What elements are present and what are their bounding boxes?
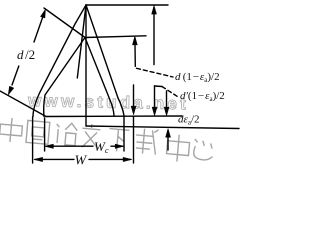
wm char xin bbox=[193, 139, 214, 161]
outer-right edge bbox=[86, 5, 124, 116]
wm char guo bbox=[26, 120, 50, 144]
inner-right edge bbox=[85, 38, 114, 116]
svg-text:Wc: Wc bbox=[94, 139, 109, 155]
d/2 reference diagonal bbox=[44, 8, 85, 38]
Wc right extension line bbox=[123, 117, 125, 152]
wm char wen bbox=[81, 123, 101, 148]
up arrow at x=154 (to top line) bbox=[153, 8, 155, 65]
d/2 dimension lower segment bbox=[12, 66, 19, 85]
svg-text:d: d bbox=[17, 47, 24, 62]
wm char zhong bbox=[0, 117, 23, 143]
wm char zai bbox=[134, 128, 158, 155]
svg-text:dεa/2: dεa/2 bbox=[178, 114, 200, 127]
top horizontal line bbox=[86, 4, 168, 6]
W right extension line bbox=[133, 117, 135, 164]
leader 2 (horizontal + dashed) bbox=[155, 85, 163, 88]
d/2 lower arrowhead bbox=[8, 86, 14, 95]
W right arrowhead bbox=[123, 157, 132, 161]
baseline 2 bbox=[86, 126, 239, 129]
d/2 upper arrowhead bbox=[41, 9, 46, 18]
second horizontal line bbox=[85, 36, 146, 38]
watermark row 1: www.studa.net bbox=[27, 91, 189, 113]
up arrow at x=168 (to baseline2 from below) bbox=[167, 131, 169, 150]
svg-text:d (1 − εa)/2: d (1 − εa)/2 bbox=[175, 71, 220, 84]
svg-text:W: W bbox=[75, 154, 88, 169]
sliver line near centerline bbox=[77, 5, 86, 78]
Wc dimension line bbox=[46, 145, 93, 147]
dashed leader 1 bbox=[137, 68, 174, 77]
W left extension line bbox=[32, 117, 34, 163]
wm char zhong2 bbox=[166, 134, 190, 163]
wm char lun bbox=[55, 122, 78, 146]
W dimension line bbox=[35, 158, 74, 160]
inner-left edge bbox=[44, 38, 85, 117]
d/2 dimension upper segment bbox=[34, 12, 45, 42]
down arrow at x=133.5 (to baseline1) bbox=[133, 85, 135, 112]
up arrow at x=134.8 (to second line) bbox=[134, 38, 136, 66]
down arrow at x=154.5 (to baseline1) bbox=[154, 86, 156, 113]
svg-text:d′(1 − εa)/2: d′(1 − εa)/2 bbox=[180, 90, 225, 103]
Wc left extension line bbox=[44, 118, 46, 151]
centerline vertical bbox=[85, 5, 87, 126]
baseline 1 bbox=[46, 115, 182, 118]
svg-text:/2: /2 bbox=[25, 47, 35, 62]
outer-left edge bbox=[33, 5, 86, 117]
watermark row 2: Chinese outline characters 中国论文下载中心 bbox=[0, 116, 214, 165]
Wc right arrowhead bbox=[115, 144, 124, 148]
W left arrowhead bbox=[34, 157, 43, 161]
Wc left arrowhead bbox=[45, 144, 54, 148]
wm char xia bbox=[108, 129, 130, 153]
down arrow at x=166.5 (to baseline1) bbox=[166, 91, 168, 113]
slant surface line bbox=[0, 91, 46, 117]
